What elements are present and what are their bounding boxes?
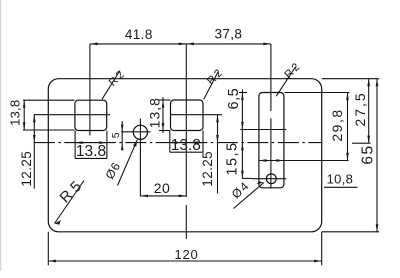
ext plate bottom right — [322, 231, 379, 233]
dim 37.8 line — [186, 43, 271, 45]
arrow R5 leader — [55, 220, 61, 225]
centerline horizontal dash-dot — [34, 142, 322, 144]
arrow D4 leader — [257, 181, 264, 184]
ext 120 left — [47, 232, 49, 265]
arrows 37.8 — [186, 43, 194, 46]
arrows 41.8 — [90, 43, 98, 46]
ext cutout1 bottom to left — [23, 129, 75, 131]
svg-text:12.25: 12.25 — [200, 151, 215, 187]
extension/centerline cutout2 — [185, 44, 187, 197]
arrows 13,8 cutout2 — [162, 100, 165, 108]
extension/centerline cutout3 — [270, 44, 272, 111]
ledge 12.25 mid — [171, 114, 223, 116]
svg-text:10,8: 10,8 — [327, 171, 354, 186]
image left border strip — [0, 0, 1, 271]
svg-text:13.8: 13.8 — [171, 137, 201, 154]
plate outline 120x65 — [48, 79, 321, 232]
cutout 2 (middle square 13.8) — [171, 100, 204, 131]
arrows 27,5 — [367, 79, 370, 87]
ledge 6,5 bottom — [240, 129, 286, 131]
arrows 120 — [48, 260, 56, 263]
svg-text:29,8: 29,8 — [329, 108, 345, 141]
leader R2 cutout3 — [276, 67, 295, 96]
ext D6 center horizontal — [121, 131, 150, 133]
ext plate top right — [322, 78, 379, 80]
dim 41.8 line — [90, 43, 186, 45]
arrows 29,8 — [346, 93, 349, 101]
ledge 27,5 bottom — [352, 142, 371, 144]
svg-text:12.25: 12.25 — [19, 151, 34, 187]
dim 13,8 cutout2 line — [162, 97, 164, 133]
dim 29,8 line — [347, 93, 349, 161]
ledge 12.25 left — [34, 114, 110, 116]
box2 ext right — [202, 131, 204, 153]
ext 120 right — [321, 232, 323, 265]
dim 12.25 mid line — [217, 115, 219, 194]
box1 bottom — [75, 157, 107, 159]
hole D6 — [133, 125, 147, 139]
arrows 5 — [121, 125, 124, 132]
arrows 10,8 — [259, 159, 267, 162]
dim 5 line — [121, 121, 123, 150]
svg-text:65: 65 — [360, 144, 377, 164]
dim 120 line — [48, 260, 321, 262]
svg-text:13.8: 13.8 — [76, 143, 106, 160]
dim 10,8 line — [259, 160, 349, 162]
centerline solid through box1 — [75, 142, 107, 144]
arrows 13,8 left — [23, 100, 26, 108]
cutout 3 (right slot 10.8 x 29.8) — [259, 93, 284, 188]
dim 65 line — [376, 79, 378, 232]
dim 27,5 line — [368, 79, 370, 144]
svg-text:37,8: 37,8 — [214, 26, 242, 41]
arrows 12.25 mid — [216, 115, 219, 123]
arrows box2 13.8 — [170, 141, 178, 144]
svg-text:120: 120 — [174, 247, 198, 262]
extension cutout2 lower — [185, 205, 187, 239]
hole D4 — [266, 174, 276, 184]
svg-text:13,8: 13,8 — [147, 97, 163, 128]
svg-text:13,8: 13,8 — [7, 100, 22, 126]
box2 ext left — [169, 131, 171, 153]
arrows box1 13.8 — [75, 141, 83, 144]
arrows 6,5 — [241, 93, 244, 101]
dim 13,8 left line — [23, 100, 25, 130]
leader R5 — [55, 181, 85, 224]
svg-text:27,5: 27,5 — [352, 91, 368, 126]
arrow D6 leader — [133, 140, 137, 147]
svg-text:15,5: 15,5 — [225, 141, 241, 175]
dim 20 line — [140, 195, 186, 197]
ticks 13,8 cutout2 — [159, 99, 171, 101]
box1 ext left — [74, 131, 76, 159]
centerline solid through box2 — [170, 142, 203, 144]
ext D4 center horizontal — [252, 178, 286, 180]
dim 12.25 left line — [33, 115, 35, 189]
arrows 15,5 — [241, 143, 244, 151]
leader D4 — [234, 183, 264, 209]
ext cutout1 top to left — [23, 99, 75, 101]
arrows 12.25 left — [33, 115, 36, 123]
svg-text:6,5: 6,5 — [226, 88, 242, 110]
underline 10,8 — [324, 186, 358, 188]
cutout 1 (left square 13.8) — [75, 100, 107, 130]
box2 bottom — [170, 151, 203, 153]
extension/centerline cutout1 — [89, 44, 91, 136]
leader D6 — [118, 140, 138, 186]
ledge 15,5 bottom — [242, 177, 252, 179]
svg-text:41.8: 41.8 — [125, 27, 153, 42]
leader R2 cutout1 — [102, 71, 120, 100]
arrows 65 — [376, 79, 379, 87]
ext slot top right — [285, 92, 350, 94]
arrows 20 — [140, 195, 148, 198]
svg-text:5: 5 — [110, 132, 122, 138]
box1 ext right — [106, 131, 108, 159]
dim 6,5/15,5 line — [241, 90, 243, 179]
ext D6 vertical — [139, 119, 141, 197]
leader R2 cutout2 — [204, 72, 218, 99]
tick at slot top — [239, 92, 247, 94]
svg-text:20: 20 — [154, 180, 171, 196]
